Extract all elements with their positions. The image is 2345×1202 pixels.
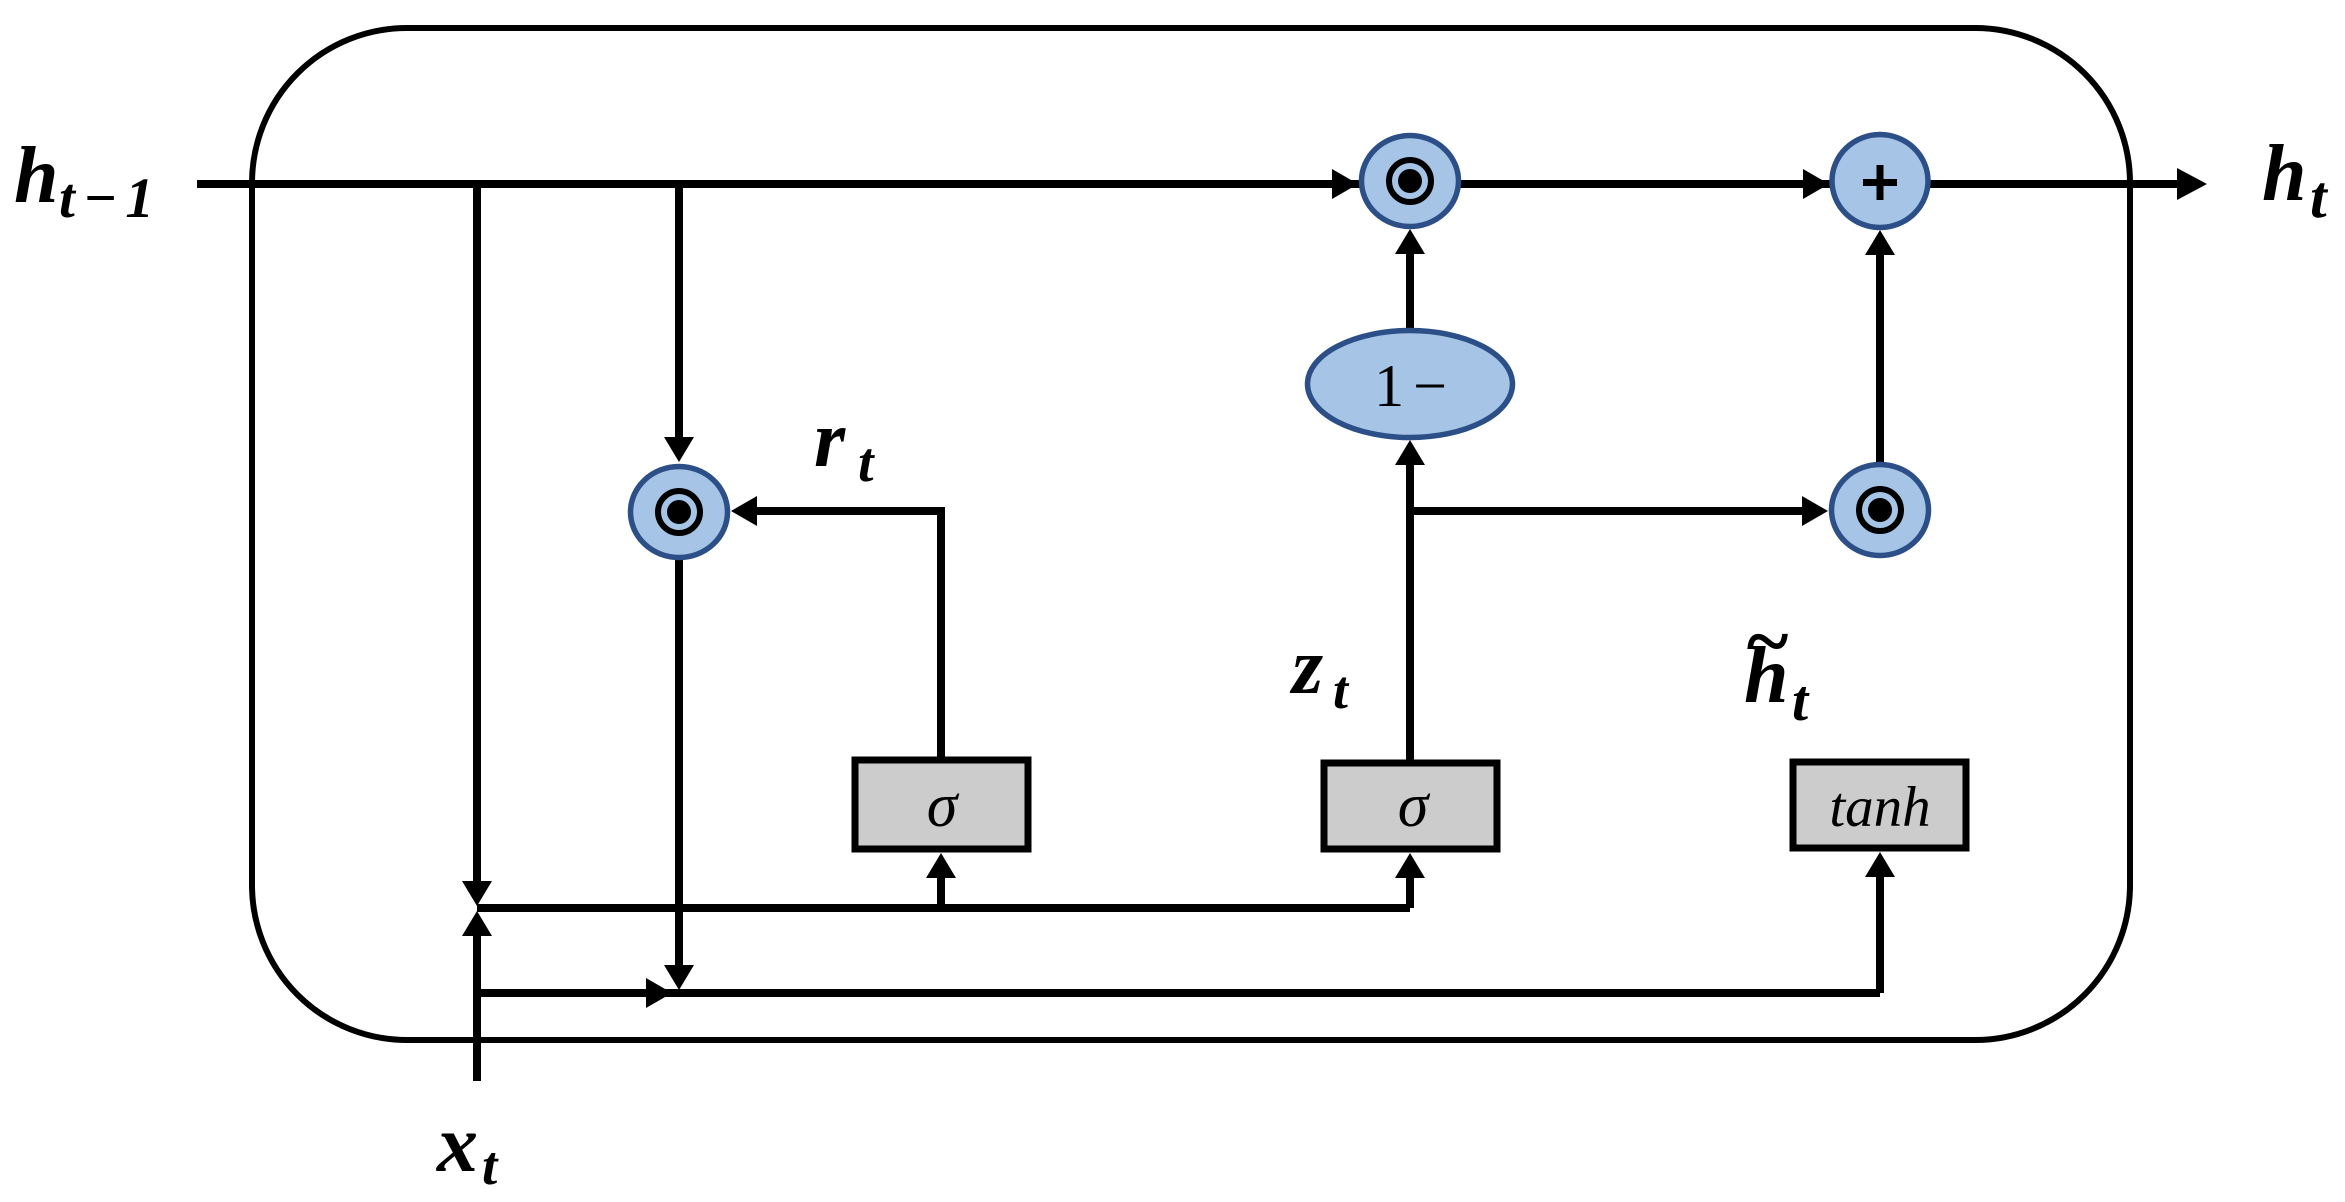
plus sign	[1877, 165, 1884, 200]
arrowhead rightward at junction	[646, 978, 672, 1008]
wire x_t input vertical	[473, 930, 481, 1081]
arrowhead into left sigma box	[926, 853, 956, 878]
svg-text:h: h	[2262, 130, 2307, 218]
arrowhead into add node	[1865, 230, 1895, 255]
svg-text:σ: σ	[927, 772, 960, 840]
left multiply node (reset)	[631, 467, 728, 558]
wire from right multiply node up to add node	[1876, 252, 1884, 462]
arrowhead into right multiply node	[1802, 496, 1828, 526]
svg-text:t: t	[2310, 164, 2329, 230]
arrowhead into left multiply node	[664, 437, 694, 462]
arrowhead into add node	[1803, 169, 1829, 199]
wire vertical branch x=679 from h line down to reset multiply	[675, 184, 683, 440]
svg-text:t: t	[1333, 660, 1350, 720]
svg-text:t−1: t−1	[59, 167, 162, 230]
arrowhead down onto concat bus	[462, 881, 492, 906]
GRU cell boundary (rounded rectangle)	[252, 28, 2130, 1040]
arrowhead into top multiply node	[1395, 229, 1425, 254]
sigma box right (update gate)	[1324, 763, 1497, 849]
svg-text:1−: 1−	[1374, 353, 1456, 419]
arrowhead down onto candidate bus	[664, 965, 694, 990]
svg-text:x: x	[436, 1098, 478, 1189]
arrowhead into right sigma box	[1395, 853, 1425, 878]
wire up into right sigma	[1406, 874, 1414, 908]
wire z_t branch right to multiply node	[1410, 507, 1806, 515]
wire concat bus y=908	[477, 904, 1410, 912]
svg-text:z: z	[1289, 623, 1323, 711]
wire from 1- ellipse up to top multiply node	[1406, 251, 1414, 330]
wire up into left sigma	[937, 874, 945, 908]
tanh box	[1793, 762, 1966, 848]
wire from left multiply node down	[675, 560, 683, 968]
svg-text:t: t	[1792, 668, 1810, 733]
wire vertical branch x=477 from h line down	[473, 184, 481, 884]
right multiply node	[1832, 465, 1929, 556]
svg-text:t: t	[858, 432, 875, 494]
arrowhead into tanh box	[1865, 852, 1895, 877]
wire candidate bus y=993	[477, 989, 1880, 997]
svg-text:h: h	[14, 132, 59, 220]
arrowhead up onto concat bus	[462, 911, 492, 936]
1- ellipse node	[1308, 331, 1513, 438]
arrowhead into top multiply node	[1332, 169, 1358, 199]
wire up into tanh	[1876, 874, 1884, 993]
sigma box left (reset gate)	[855, 760, 1028, 849]
wire h_t-1 main horizontal line	[197, 180, 2178, 188]
add node	[1832, 135, 1928, 228]
svg-text:r: r	[814, 396, 846, 484]
svg-text:t: t	[482, 1135, 499, 1196]
top multiply node	[1362, 136, 1459, 227]
svg-text:σ: σ	[1398, 772, 1431, 840]
svg-text:~: ~	[1744, 598, 1790, 686]
arrowhead into left multiply node	[731, 496, 757, 526]
arrowhead into 1- ellipse	[1395, 440, 1425, 465]
wire z_t from right sigma up to 1- ellipse	[1406, 462, 1414, 760]
wire r_t from sigma box up and left into multiply	[753, 511, 941, 757]
svg-text:tanh: tanh	[1829, 776, 1930, 839]
arrowhead output h_t	[2177, 168, 2207, 200]
